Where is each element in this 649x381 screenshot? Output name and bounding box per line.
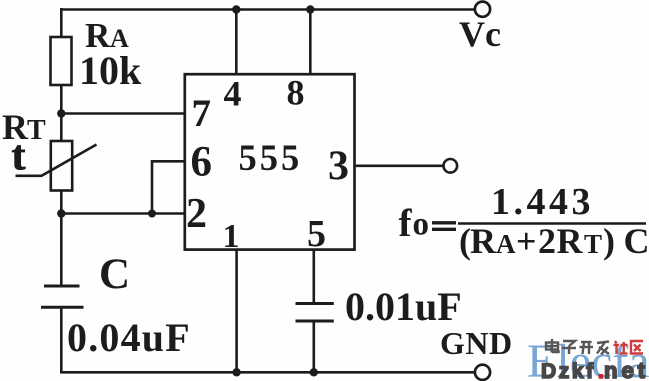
wire pin8 [309, 9, 312, 74]
svg-text:555: 555 [239, 137, 303, 178]
watermark Dzkf.net [541, 358, 649, 381]
watermark chinese 开 [580, 342, 594, 354]
node junction pin6/pin2 [148, 210, 156, 218]
watermark chinese 社 [614, 341, 628, 354]
watermark chinese 电 [546, 339, 559, 352]
svg-text:0.04uF: 0.04uF [67, 315, 191, 360]
terminal Vc [475, 2, 490, 17]
node junction pin5 bottom rail [310, 368, 318, 376]
terminal output pin3 [444, 159, 458, 173]
wire C bottom lead [60, 307, 63, 373]
svg-text:o: o [413, 207, 430, 243]
wire pin2 [60, 212, 185, 215]
wire pin1 [235, 250, 238, 373]
wire 0.01uF bottom lead [312, 321, 315, 372]
svg-text:6: 6 [191, 139, 213, 186]
svg-text:T: T [584, 229, 602, 259]
wire RA bottom lead [60, 85, 63, 114]
svg-text:net: net [604, 358, 649, 381]
svg-text:2: 2 [186, 191, 207, 237]
svg-text:7: 7 [192, 92, 212, 135]
node junction pin8 top rail [306, 5, 314, 13]
thermistor RT [16, 141, 97, 191]
watermark chinese 发 [597, 342, 609, 355]
svg-text:3: 3 [328, 144, 349, 190]
wire C top lead [60, 214, 63, 287]
svg-text:0.01uF: 0.01uF [345, 284, 462, 329]
svg-text:8: 8 [287, 73, 305, 113]
node A junction RA/RT/pin7 [57, 109, 65, 117]
wire RT bottom lead [60, 191, 63, 215]
capacitor 0.01uF [296, 304, 334, 322]
terminal GND [475, 365, 490, 380]
node junction pin1 bottom rail [232, 368, 240, 376]
formula fraction bar [458, 222, 646, 225]
svg-text:C: C [99, 251, 130, 298]
wire RA top lead [60, 8, 63, 37]
wire RT top lead [60, 114, 63, 142]
equals sign of formula [432, 223, 456, 230]
svg-text:): ) [603, 221, 615, 261]
wire pin4 [235, 9, 238, 74]
node junction pin4 top rail [232, 5, 240, 13]
svg-text:+: + [516, 221, 537, 261]
svg-text:10k: 10k [79, 48, 142, 93]
watermark chinese 子 [562, 341, 576, 354]
svg-text:4: 4 [224, 74, 242, 114]
svg-text:5: 5 [307, 213, 326, 255]
svg-text:R: R [470, 221, 497, 261]
svg-text:1.443: 1.443 [491, 181, 594, 223]
svg-text:f: f [399, 202, 413, 245]
op-amp U1 555 IC body [185, 74, 355, 249]
svg-text:A: A [496, 229, 516, 259]
wire top rail [61, 8, 475, 11]
label RA [85, 16, 129, 55]
svg-text:C: C [624, 221, 649, 261]
svg-text:GND: GND [440, 325, 513, 361]
capacitor C [41, 286, 84, 307]
resistor RA [51, 37, 72, 85]
svg-text:Vc: Vc [459, 14, 501, 54]
svg-text:1: 1 [223, 218, 240, 255]
svg-text:2: 2 [538, 221, 556, 261]
wire pin5 lead [312, 250, 315, 304]
svg-text:R: R [557, 221, 584, 261]
watermark chinese 区 [631, 341, 643, 354]
label RT [2, 107, 46, 147]
svg-text:t: t [12, 134, 26, 180]
wire pin6 stub [152, 161, 185, 214]
formula denominator (RA+2RT) C [459, 221, 649, 261]
svg-text:Dzkf: Dzkf [541, 360, 596, 381]
wire bottom rail [60, 371, 475, 374]
formula fo= [399, 202, 430, 245]
svg-text:T: T [27, 115, 46, 146]
node B junction RT/pin2/C [57, 209, 65, 217]
wire pin3 [355, 165, 444, 168]
wire pin7 [60, 112, 185, 115]
